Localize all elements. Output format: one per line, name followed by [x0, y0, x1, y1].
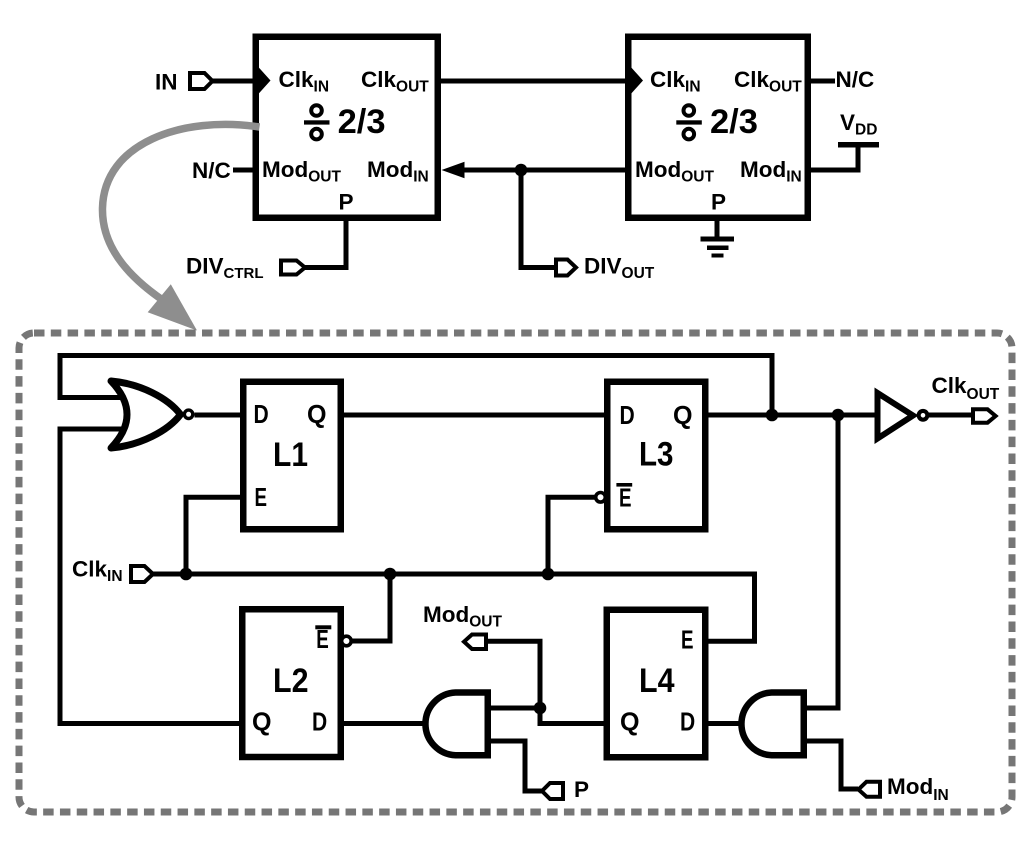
svg-text:2/3: 2/3	[710, 103, 758, 141]
svg-text:2/3: 2/3	[338, 103, 386, 141]
svg-text:P: P	[574, 777, 589, 802]
svg-text:E: E	[619, 482, 632, 512]
svg-text:E: E	[255, 482, 268, 512]
svg-text:D: D	[620, 400, 635, 430]
svg-text:N/C: N/C	[192, 158, 231, 183]
svg-text:Q: Q	[307, 399, 327, 429]
svg-text:D: D	[680, 706, 695, 736]
svg-text:P: P	[339, 190, 354, 215]
svg-text:Q: Q	[673, 400, 693, 430]
svg-text:N/C: N/C	[836, 67, 875, 92]
svg-text:D: D	[312, 706, 327, 736]
svg-text:Q: Q	[252, 706, 272, 736]
svg-text:L3: L3	[639, 436, 674, 474]
svg-text:L1: L1	[273, 436, 308, 474]
svg-text:IN: IN	[155, 70, 178, 95]
svg-text:L2: L2	[273, 662, 309, 700]
svg-text:E: E	[681, 625, 694, 655]
svg-text:P: P	[711, 190, 726, 215]
svg-text:Q: Q	[620, 706, 640, 736]
svg-text:L4: L4	[639, 662, 675, 700]
svg-text:D: D	[254, 399, 269, 429]
